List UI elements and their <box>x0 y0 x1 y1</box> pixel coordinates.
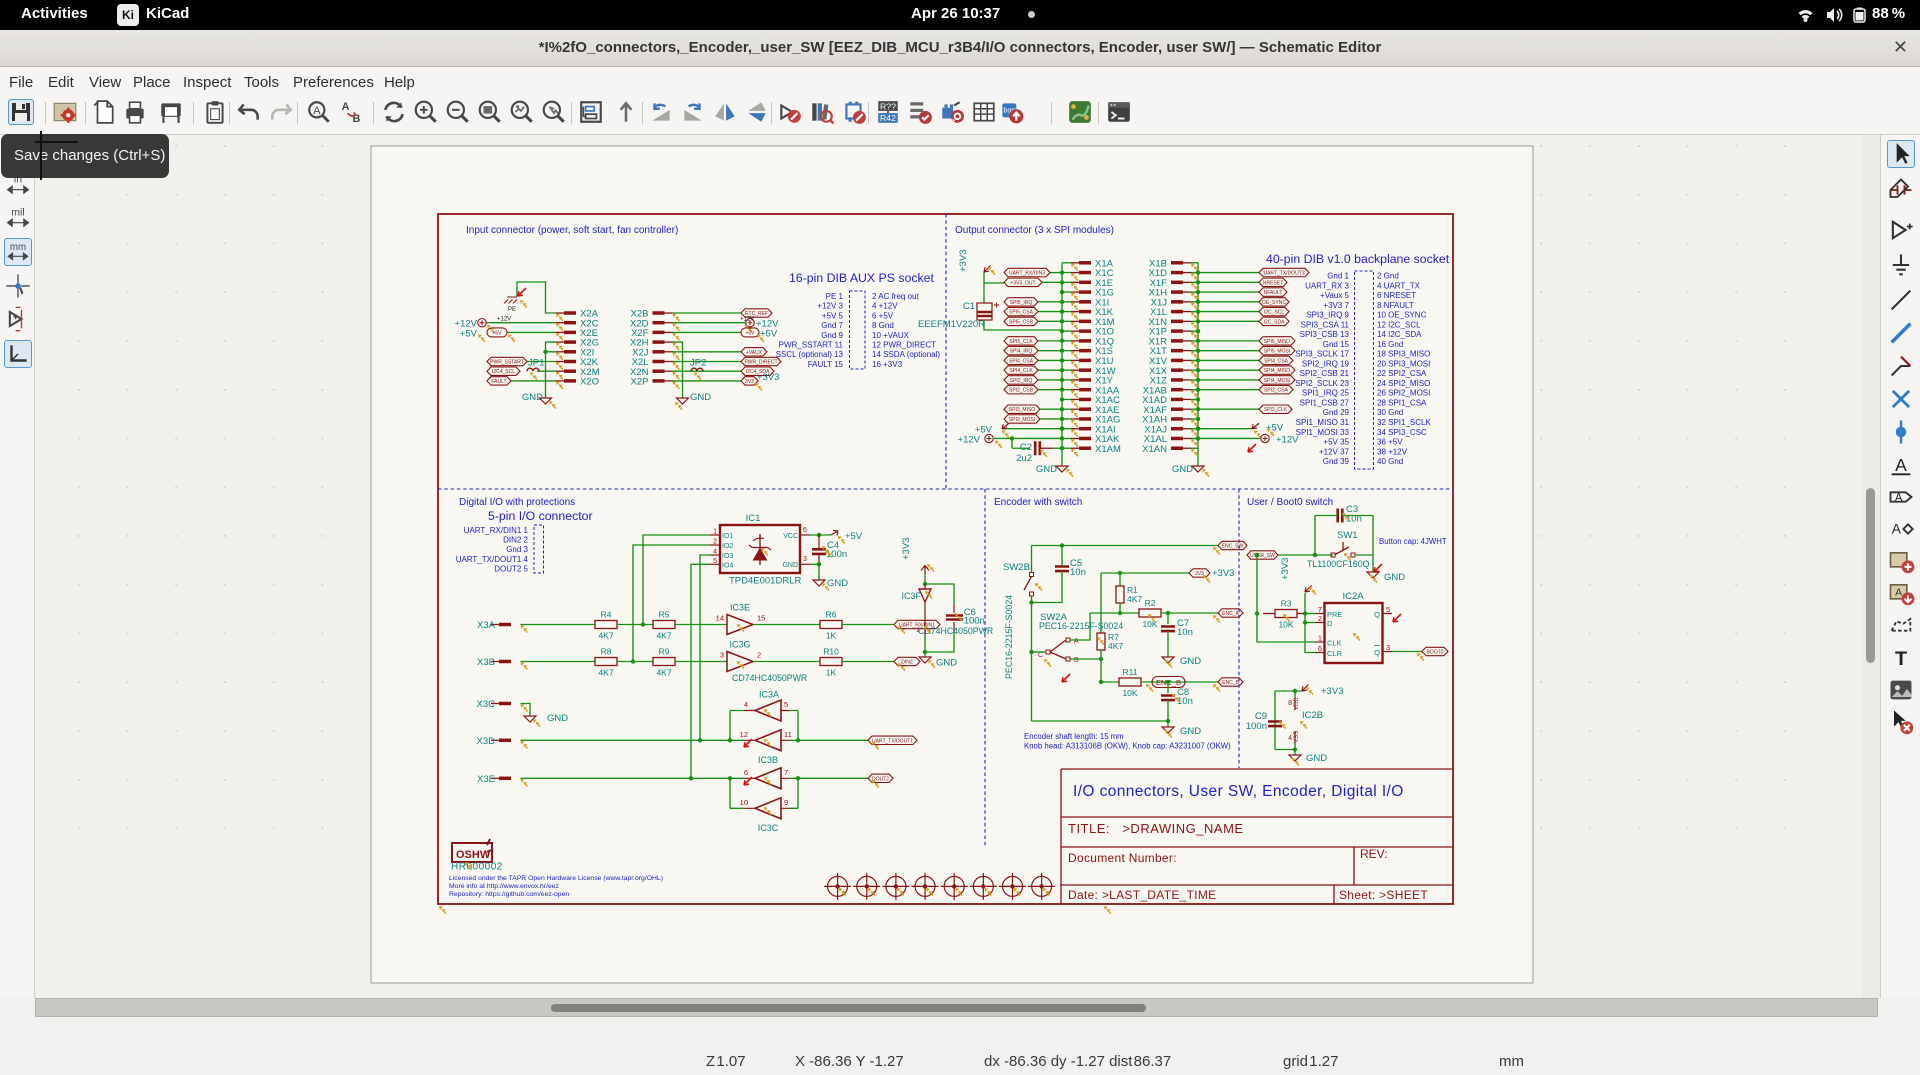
wire R1 top <box>1119 573 1121 586</box>
wire pin X1AI <box>1062 428 1071 430</box>
svg-text:6 NRESET: 6 NRESET <box>1377 291 1416 300</box>
connector pin X1B <box>1171 261 1183 265</box>
fiducial target 1 <box>824 873 851 900</box>
connector pin X1AJ <box>1171 427 1183 431</box>
wire pin X1Z <box>1191 379 1198 381</box>
svg-text:GND: GND <box>782 562 798 569</box>
erc marker frame corner 2 <box>1104 906 1111 914</box>
wire to UART_TX/DOUT1 <box>798 739 868 741</box>
wire pin X1I <box>1062 301 1071 303</box>
global label SPI3_MOSI <box>1004 415 1040 423</box>
junction <box>1196 270 1200 274</box>
wire X2B RTC_REF <box>673 312 742 314</box>
junction <box>1060 378 1064 382</box>
svg-text:10K: 10K <box>1122 688 1137 698</box>
wire UART_TX/DOUT3 <box>1198 272 1259 274</box>
op-amp IC3B buffer <box>755 730 781 751</box>
wire pin X1W <box>1062 369 1071 371</box>
erc marker X1B <box>1191 263 1198 271</box>
junction X3D IO3 <box>698 738 702 742</box>
wire IC2B top <box>1275 690 1302 692</box>
junction <box>1255 611 1259 615</box>
wire +3V3 to IC3F <box>924 575 926 584</box>
junction <box>817 562 821 566</box>
wire SPI5_CLK <box>1038 340 1062 342</box>
junction <box>1099 680 1103 684</box>
wire to gnd IC1 <box>818 564 820 580</box>
junction <box>1060 280 1064 284</box>
wire A contact <box>1070 613 1090 640</box>
svg-text:Gnd 9: Gnd 9 <box>821 331 843 340</box>
svg-text:Gnd 15: Gnd 15 <box>1323 340 1350 349</box>
svg-text:10n: 10n <box>1177 696 1193 707</box>
svg-text:Digital I/O with protections: Digital I/O with protections <box>459 497 575 508</box>
global label I2C4_SDA <box>741 367 774 375</box>
wire pin X1O <box>1062 330 1071 332</box>
erc marker X1K <box>1071 312 1078 320</box>
svg-text:SPI2_IRQ 19: SPI2_IRQ 19 <box>1302 359 1350 368</box>
svg-text:DIN2 2: DIN2 2 <box>503 536 528 545</box>
svg-text:R9: R9 <box>659 647 670 657</box>
global label USER_SW <box>1247 551 1278 559</box>
svg-text:A: A <box>1892 521 1902 537</box>
svg-text:I2C_SCL: I2C_SCL <box>1264 310 1285 316</box>
svg-text:10 OE_SYNC: 10 OE_SYNC <box>1377 311 1427 320</box>
wire OE_SYNC <box>1198 301 1259 303</box>
wire SPI5_IRQ <box>1038 301 1062 303</box>
wire X2J +VAUX <box>673 351 742 353</box>
5-pin connector outline <box>534 525 544 573</box>
junction <box>1196 427 1200 431</box>
svg-text:DIN2: DIN2 <box>901 660 913 666</box>
wire R4 to R5 <box>617 624 653 626</box>
svg-text:14 SSDA (optional): 14 SSDA (optional) <box>872 350 940 359</box>
connector pin X1AD <box>1171 398 1183 402</box>
svg-text:4K7: 4K7 <box>1108 641 1123 651</box>
svg-text:SPI2_CLK: SPI2_CLK <box>1264 407 1288 413</box>
erc marker X1AA <box>1071 390 1078 398</box>
pin 7 IC2A PRE <box>1315 613 1325 615</box>
svg-text:TITLE: >DRAWING_NAME: TITLE: >DRAWING_NAME <box>1068 821 1244 836</box>
svg-text:5: 5 <box>784 700 788 709</box>
pin 6 IC2A CLR <box>1315 652 1325 654</box>
svg-text:+12V: +12V <box>497 317 511 323</box>
erc arrow IC3D <box>744 777 752 785</box>
wire pin X1R <box>1191 340 1198 342</box>
junction <box>1060 446 1064 450</box>
wire +3V3_OUT <box>1042 281 1062 283</box>
svg-text:2: 2 <box>1318 614 1322 623</box>
global label SPI5_MISO <box>1259 337 1295 345</box>
erc arrow SW1 <box>1374 564 1382 572</box>
junction X3B IO2 <box>631 659 635 663</box>
wire C8 bottom <box>1167 700 1169 721</box>
svg-text:1K: 1K <box>826 631 837 641</box>
svg-text:+12V: +12V <box>958 434 981 445</box>
wire SPI4_CSA <box>1198 359 1259 361</box>
svg-text:SPI1_CSB 27: SPI1_CSB 27 <box>1300 398 1350 407</box>
16-pin socket outline <box>850 291 866 369</box>
wire pin X1M <box>1062 320 1071 322</box>
global label RTC_REF <box>741 309 772 317</box>
wire SPI4_MISO <box>1198 369 1259 371</box>
wire USER_SW to SW1 <box>1278 554 1333 556</box>
wire R2 to ENC_A <box>1161 612 1218 614</box>
cursor crosshair <box>40 131 42 180</box>
erc error arrow +12V <box>1248 444 1256 452</box>
wire pin X1AN <box>1191 447 1198 449</box>
junction <box>1029 650 1033 654</box>
svg-text:SW1: SW1 <box>1337 530 1358 541</box>
erc marker IC2A <box>1353 633 1360 641</box>
wire pin X1AG <box>1062 418 1071 420</box>
connector pin X2G <box>564 340 576 344</box>
svg-text:IC3F: IC3F <box>901 591 921 601</box>
pin 1 IC1 IO1 <box>710 534 720 536</box>
erc marker X1F <box>1191 283 1198 291</box>
junction <box>1303 611 1307 615</box>
svg-text:Gnd 3: Gnd 3 <box>506 545 528 554</box>
svg-text:R10: R10 <box>823 647 839 657</box>
svg-text:CD74HC4050PWR: CD74HC4050PWR <box>732 673 807 683</box>
OSHW logo <box>452 843 492 862</box>
svg-text:+5V: +5V <box>760 328 778 339</box>
wire IC1 GND <box>810 563 819 565</box>
wire UART_RX/DIN3 <box>1050 272 1062 274</box>
wire R6 to label <box>842 624 894 626</box>
svg-text:1K: 1K <box>826 668 837 678</box>
erc marker X2E <box>556 333 563 341</box>
svg-text:6: 6 <box>1318 644 1322 653</box>
title block outline <box>1061 769 1452 904</box>
pin 3 IC2A Q <box>1383 651 1393 653</box>
connector pin X1AL <box>1171 437 1183 441</box>
svg-text:X3E: X3E <box>477 774 495 785</box>
pin 4 IC1 IO3 <box>710 554 720 556</box>
svg-text:IC2A: IC2A <box>1342 591 1364 602</box>
svg-text:NRESET: NRESET <box>1263 280 1283 286</box>
svg-text:+12V 37: +12V 37 <box>1319 447 1350 456</box>
wire X2D +12V <box>673 322 747 324</box>
op-amp IC3C buffer <box>755 798 781 819</box>
connector pin X1C <box>1079 271 1091 275</box>
wire X2A to PE <box>517 282 556 313</box>
connector pin X1G <box>1079 290 1091 294</box>
svg-text:GND: GND <box>1306 753 1327 764</box>
svg-text:PE: PE <box>508 307 516 313</box>
global label SPI2_CSA <box>1259 385 1293 393</box>
svg-text:SPI1_IRQ 25: SPI1_IRQ 25 <box>1302 389 1350 398</box>
svg-text:4: 4 <box>744 700 748 709</box>
erc marker X1X <box>1191 371 1198 379</box>
connector pin X1Z <box>1171 378 1183 382</box>
wire pin X1K <box>1062 311 1071 313</box>
wire IC1 VCC +5V <box>810 534 831 536</box>
svg-text:Document Number:: Document Number: <box>1068 851 1177 865</box>
svg-text:R11: R11 <box>1123 667 1138 677</box>
main toolbar <box>0 95 1920 135</box>
global label PWR_DIRECT <box>741 357 781 365</box>
wire encoder bottom rail <box>1032 720 1169 722</box>
wire X2O FAULT <box>511 380 556 382</box>
connector pin X1R <box>1171 339 1183 343</box>
svg-text:SPI3_CSA 11: SPI3_CSA 11 <box>1301 320 1350 329</box>
junction <box>1196 329 1200 333</box>
wire R7 top <box>1100 573 1102 633</box>
junction <box>1060 397 1064 401</box>
svg-text:IC1: IC1 <box>746 513 761 524</box>
global label SPI4_IRQ <box>1004 346 1038 354</box>
connector pin X1E <box>1079 281 1091 285</box>
svg-text:Output connector (3 x SPI modu: Output connector (3 x SPI modules) <box>955 225 1114 236</box>
wire NRESET <box>1198 281 1259 283</box>
erc marker X2H <box>673 343 680 351</box>
svg-text:CLK: CLK <box>1327 639 1342 648</box>
wire SW1 to gnd <box>1372 555 1374 572</box>
op-amp U IC1 TPD4E001DRLR box <box>720 525 800 573</box>
svg-text:SPI5_MISO: SPI5_MISO <box>1264 339 1291 345</box>
junction <box>796 738 800 742</box>
erc marker X1AD <box>1191 400 1198 408</box>
erc marker X1J <box>1191 302 1198 310</box>
erc marker X1AH <box>1191 419 1198 427</box>
switch SW2B <box>1030 573 1034 577</box>
ground X1 left <box>1056 466 1068 472</box>
erc marker X1D <box>1191 273 1198 281</box>
erc marker X1M <box>1071 322 1078 330</box>
wire X2M I2C4_SCL <box>537 370 556 372</box>
svg-text:R??: R?? <box>880 101 896 111</box>
junction <box>817 533 821 537</box>
overline Q bar <box>1374 645 1380 647</box>
wire SW2B bottom rail <box>1031 596 1033 721</box>
svg-text:SPI4_IRQ: SPI4_IRQ <box>1010 349 1033 355</box>
global label BOOT0 <box>1422 647 1448 655</box>
erc marker X1H <box>1191 293 1198 301</box>
svg-text:6: 6 <box>803 527 807 534</box>
svg-text:+3V3: +3V3 <box>1321 686 1343 697</box>
wire pin X1X <box>1191 369 1198 371</box>
svg-text:1: 1 <box>1318 634 1322 643</box>
svg-text:SPI1_MISO 31: SPI1_MISO 31 <box>1296 418 1350 427</box>
erc marker X1V <box>1191 361 1198 369</box>
svg-text:+5V: +5V <box>492 330 502 336</box>
global label +VAUX <box>741 348 767 356</box>
connector pin X1AN <box>1171 446 1183 450</box>
jumper JP2 pads <box>691 368 703 371</box>
wire SPI4_MOSI <box>1198 379 1259 381</box>
svg-text:UART_RX/DIN1 1: UART_RX/DIN1 1 <box>464 526 529 535</box>
global label SPI4_CSA <box>1259 356 1293 364</box>
wire C8 top <box>1167 682 1169 693</box>
erc marker X1I <box>1071 302 1078 310</box>
wire to gnd IC2B <box>1294 750 1296 756</box>
power pill +5V left <box>487 328 507 337</box>
connector pin X1V <box>1171 359 1183 363</box>
svg-text:5-pin I/O connector: 5-pin I/O connector <box>488 509 593 523</box>
junction <box>1060 407 1064 411</box>
svg-text:9: 9 <box>784 798 788 807</box>
ground X1 right <box>1192 466 1204 472</box>
svg-text:GND: GND <box>1180 726 1201 737</box>
svg-text:38 +12V: 38 +12V <box>1377 447 1408 456</box>
svg-text:SPI2_CSB: SPI2_CSB <box>1009 388 1034 394</box>
resistor R9 <box>653 658 675 666</box>
menu bar <box>0 67 1920 95</box>
global label SPI2_CLK <box>1259 405 1292 413</box>
svg-text:SPI2_CSA: SPI2_CSA <box>1264 388 1289 394</box>
junction <box>1099 657 1103 661</box>
svg-text:PE 1: PE 1 <box>826 292 844 301</box>
global label SPI4_CSA <box>1004 356 1038 364</box>
svg-text:5: 5 <box>713 558 717 565</box>
svg-text:IC3A: IC3A <box>759 690 779 700</box>
global label SPI5_IRQ <box>1004 298 1038 306</box>
ground IC2B <box>1289 755 1301 761</box>
svg-text:TL1100CF160Q: TL1100CF160Q <box>1307 559 1370 569</box>
junction <box>1166 719 1170 723</box>
pin leads IC3F <box>924 584 926 636</box>
svg-text:UART_TX/DOUT3: UART_TX/DOUT3 <box>1263 271 1304 277</box>
wire SPI2_IRQ <box>1038 379 1062 381</box>
connector pin X1U <box>1079 359 1091 363</box>
svg-text:R2: R2 <box>1145 598 1156 608</box>
wire pin X1Y <box>1062 379 1071 381</box>
erc marker X1AM <box>1071 449 1078 457</box>
wire X2G to gnd bus <box>546 342 557 394</box>
connector pin X2H <box>653 340 665 344</box>
svg-text:R3: R3 <box>1281 599 1292 609</box>
svg-text:10K: 10K <box>1278 620 1293 630</box>
svg-text:16 Gnd: 16 Gnd <box>1377 340 1403 349</box>
power +12V X1 left <box>994 437 1062 439</box>
wire X3B to R8 <box>521 661 596 663</box>
connector pin X3C <box>499 702 511 706</box>
power +12V X1 right <box>1198 437 1260 439</box>
svg-text:IC3G: IC3G <box>729 640 750 650</box>
erc marker X1AE <box>1071 410 1078 418</box>
connector pin X1J <box>1171 300 1183 304</box>
junction <box>1010 436 1014 440</box>
connector pin X1Y <box>1079 378 1091 382</box>
wire X2P +3V3 <box>673 380 742 382</box>
svg-text:IC3C: IC3C <box>758 823 779 833</box>
erc marker frame corner <box>439 906 446 914</box>
junction X3A IO1 <box>641 622 645 626</box>
svg-text:10n: 10n <box>1070 567 1086 578</box>
svg-text:I/O connectors, User SW, Encod: I/O connectors, User SW, Encoder, Digita… <box>1073 783 1404 800</box>
svg-text:IO2: IO2 <box>722 543 733 550</box>
junction <box>1196 309 1200 313</box>
junction <box>1196 339 1200 343</box>
wire R10 to label <box>842 661 894 663</box>
junction <box>1060 387 1064 391</box>
connector pin X2J <box>653 350 665 354</box>
svg-text:4K7: 4K7 <box>656 668 671 678</box>
svg-text:D: D <box>1327 619 1333 628</box>
wire X2K PWR_SSTART <box>527 361 556 363</box>
wire R3 leads <box>1263 613 1305 615</box>
svg-text:IO1: IO1 <box>722 533 733 540</box>
erc marker X1G <box>1071 293 1078 301</box>
wire C9 branch <box>1274 691 1276 750</box>
fiducial target 6 <box>970 873 997 900</box>
svg-text:14 I2C_SDA: 14 I2C_SDA <box>1377 330 1422 339</box>
wire IO1 to X3A <box>643 535 710 625</box>
svg-text:UART_RX/DIN3: UART_RX/DIN3 <box>1009 271 1045 277</box>
svg-text:UART_TX/DOUT1 4: UART_TX/DOUT1 4 <box>456 555 529 564</box>
wire pin X1N <box>1191 320 1198 322</box>
fiducial target 4 <box>912 873 939 900</box>
svg-text:X3D: X3D <box>477 736 496 747</box>
svg-text:16-pin DIB AUX PS socket: 16-pin DIB AUX PS socket <box>789 271 934 285</box>
svg-text:ENC_A: ENC_A <box>1222 611 1239 617</box>
svg-text:SPI5_IRQ: SPI5_IRQ <box>1010 300 1033 306</box>
erc marker X2B <box>673 314 680 322</box>
connector pin X1M <box>1079 320 1091 324</box>
connector pin X1AK <box>1079 437 1091 441</box>
svg-text:mm: mm <box>10 242 26 253</box>
wire buffer pair B vertical right <box>797 778 799 808</box>
svg-text:4 UART_TX: 4 UART_TX <box>1377 281 1421 290</box>
svg-text:24 SPI2_MISO: 24 SPI2_MISO <box>1377 379 1430 388</box>
svg-text:CLR: CLR <box>1327 649 1343 658</box>
fiducial target 8 <box>1028 873 1055 900</box>
connector pin X3B <box>499 660 511 664</box>
junction <box>1303 620 1307 624</box>
svg-text:USER_SW: USER_SW <box>1250 553 1275 559</box>
power arrow +3V3 <box>984 266 991 273</box>
wire R9 to IC3G <box>675 661 727 663</box>
global label SPI4_CLK <box>1004 366 1038 374</box>
svg-text:A: A <box>1895 586 1902 598</box>
wire gnd drop right <box>682 394 684 398</box>
flip-flop IC2A box <box>1325 603 1383 663</box>
junction <box>1196 348 1200 352</box>
svg-text:TPD4E001DRLR: TPD4E001DRLR <box>729 576 801 587</box>
pin 8 IC2B VDD <box>1294 691 1296 698</box>
svg-text:7: 7 <box>784 768 788 777</box>
connector pin X1AE <box>1079 407 1091 411</box>
connector pin X2F <box>653 331 665 335</box>
svg-text:+3V3: +3V3 <box>901 538 912 560</box>
fiducial target 3 <box>882 873 909 900</box>
resistor R2 <box>1139 609 1161 617</box>
wire X3C to gnd <box>521 704 531 717</box>
svg-text:SPI5_CSA: SPI5_CSA <box>1009 310 1034 316</box>
wire gnd X1 right <box>1197 464 1199 466</box>
power pill +5V right <box>741 328 759 337</box>
resistor R10 <box>820 658 842 666</box>
svg-text:Encoder with switch: Encoder with switch <box>994 497 1082 508</box>
wire R11 left <box>1101 681 1119 683</box>
connector pin X1A <box>1079 261 1091 265</box>
junction <box>1060 270 1064 274</box>
erc marker X2O <box>556 381 563 389</box>
wire X2N I2C4_SDA <box>673 370 742 372</box>
svg-text:GND: GND <box>1172 464 1193 475</box>
connector pin X2K <box>564 360 576 364</box>
wire C3 left drop <box>1314 516 1316 556</box>
pin 2 IC1 IO2 <box>710 544 720 546</box>
connector pin X1T <box>1171 349 1183 353</box>
svg-text:Date: >LAST_DATE_TIME: Date: >LAST_DATE_TIME <box>1068 888 1216 902</box>
wire to gnd encoder <box>1167 721 1169 727</box>
window title bar <box>0 30 1920 67</box>
global label NRESET <box>1259 278 1287 286</box>
svg-text:GND: GND <box>522 392 543 403</box>
svg-text:NFAULT: NFAULT <box>1264 290 1283 296</box>
